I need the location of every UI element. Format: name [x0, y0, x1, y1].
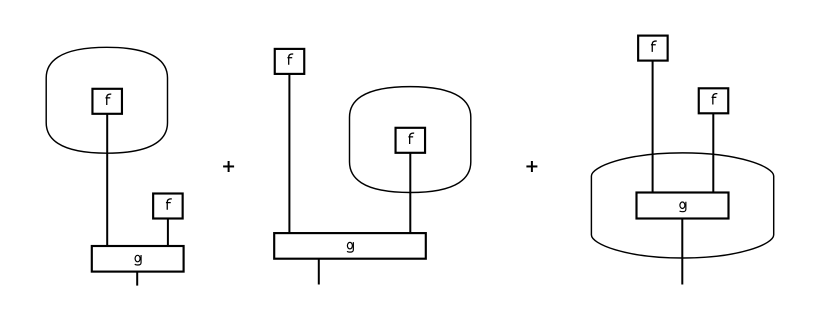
wire f1b to g1 — [167, 218, 169, 246]
wire f2a to g2 — [288, 73, 290, 233]
bubble around g (diagram 3) — [591, 153, 773, 258]
box g3 — [637, 193, 729, 219]
wire f3b to g3 — [712, 113, 714, 193]
box g1 — [92, 246, 184, 272]
bubble around f (diagram 2) — [350, 87, 471, 193]
output wire g2 — [318, 259, 320, 285]
wire f1 to g1 — [106, 113, 108, 246]
box f1b — [153, 194, 183, 219]
box f3a — [638, 36, 668, 61]
wire f3a to g3 — [652, 60, 654, 193]
plus sign 1 — [223, 161, 234, 172]
box f2a — [275, 49, 305, 74]
box f3b — [699, 88, 729, 113]
output wire g1 — [136, 272, 138, 286]
box g2 — [274, 233, 426, 259]
box f2b — [396, 128, 426, 153]
output wire g3 — [681, 219, 683, 285]
plus sign 2 — [526, 161, 537, 172]
wire f2b to g2 — [409, 152, 411, 233]
box f1 — [92, 89, 122, 114]
bubble around f (diagram 1) — [46, 47, 167, 153]
